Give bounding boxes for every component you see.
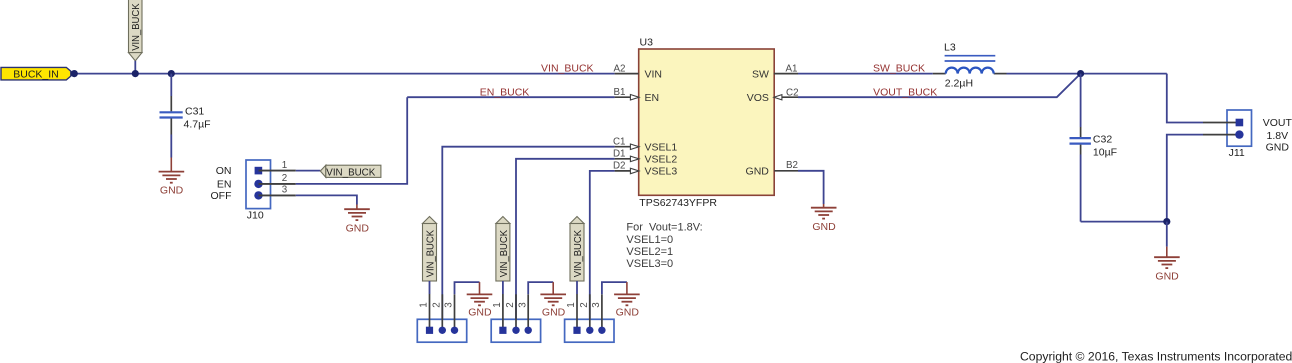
ground g3	[614, 282, 640, 305]
svg-text:GND: GND	[746, 165, 770, 177]
svg-text:B1: B1	[614, 87, 626, 98]
wire J11 pin2 to GND rail	[1167, 135, 1203, 222]
svg-text:VIN_BUCK: VIN_BUCK	[326, 167, 375, 179]
wire L3 to output node	[1007, 73, 1167, 75]
svg-text:VSEL2=1: VSEL2=1	[626, 246, 673, 258]
wire main VIN rail	[71, 73, 615, 75]
svg-text:L3: L3	[944, 42, 956, 54]
svg-text:VSEL1=0: VSEL1=0	[626, 234, 673, 246]
svg-text:SW_BUCK: SW_BUCK	[873, 63, 925, 75]
svg-text:Copyright © 2016, Texas Instru: Copyright © 2016, Texas Instruments Inco…	[1020, 350, 1292, 363]
net flag VIN_BUCK (top, vertical)	[129, 0, 143, 61]
ground g2	[540, 282, 566, 305]
svg-text:VSEL3: VSEL3	[645, 166, 678, 178]
connector J10	[246, 160, 271, 222]
svg-text:For Vout=1.8V:: For Vout=1.8V:	[626, 222, 702, 234]
capacitor C32	[1070, 74, 1118, 222]
svg-text:2: 2	[579, 302, 590, 307]
ground under C31	[159, 158, 185, 183]
svg-text:J11: J11	[1229, 147, 1245, 159]
connector box g3	[573, 327, 580, 334]
wire flag to pin1 g3	[576, 281, 578, 294]
svg-text:VIN_BUCK: VIN_BUCK	[130, 4, 142, 51]
svg-text:D2: D2	[613, 161, 626, 172]
svg-text:BUCK_IN: BUCK_IN	[13, 68, 59, 80]
svg-text:C31: C31	[185, 106, 204, 118]
junction C31 tap	[168, 70, 175, 77]
svg-text:C1: C1	[613, 136, 626, 147]
svg-text:2: 2	[432, 302, 443, 307]
svg-text:VSEL1: VSEL1	[645, 141, 678, 153]
svg-text:VIN_BUCK: VIN_BUCK	[424, 230, 436, 277]
net flag VIN_BUCK g3	[570, 217, 584, 224]
svg-text:2.2µH: 2.2µH	[945, 78, 973, 90]
svg-text:4.7µF: 4.7µF	[184, 119, 211, 131]
connector box g2	[499, 327, 506, 334]
wire pin2 riser g1	[441, 294, 443, 330]
svg-text:U3: U3	[640, 36, 654, 48]
wire U3 GND B2 to ground	[798, 171, 824, 204]
svg-text:EN: EN	[645, 92, 660, 104]
wire J10 pin3 to ground	[296, 195, 357, 204]
svg-text:2: 2	[282, 173, 287, 184]
ground at J10 pin3	[344, 205, 370, 221]
connector box g1	[426, 327, 433, 334]
svg-text:3: 3	[282, 185, 288, 196]
bottom connector group 3	[565, 217, 640, 343]
junction GND rail	[1163, 218, 1170, 225]
svg-text:GND: GND	[542, 306, 566, 318]
capacitor C31	[160, 74, 211, 158]
svg-text:VIN: VIN	[645, 68, 663, 80]
wire SW to L3	[798, 73, 933, 75]
svg-text:1: 1	[419, 302, 430, 307]
wire VOS VOUT_BUCK	[798, 74, 1081, 98]
svg-text:GND: GND	[160, 184, 184, 196]
IC U3 body	[639, 36, 775, 209]
svg-text:OFF: OFF	[211, 190, 232, 202]
junction output node	[1077, 70, 1084, 77]
svg-text:1.8V: 1.8V	[1266, 130, 1288, 142]
svg-text:GND: GND	[1266, 142, 1290, 154]
wire VSEL1	[442, 147, 614, 327]
svg-text:VIN_BUCK: VIN_BUCK	[541, 63, 594, 75]
svg-text:B2: B2	[786, 160, 798, 171]
svg-text:VIN_BUCK: VIN_BUCK	[498, 230, 510, 277]
svg-text:1: 1	[282, 160, 287, 171]
junction at BUCK_IN	[71, 70, 78, 77]
wire pin3 to ground g3	[601, 294, 603, 330]
svg-text:3: 3	[517, 302, 528, 308]
svg-text:GND: GND	[468, 306, 492, 318]
wire GND rail down	[1166, 222, 1168, 247]
wire J10 pin2 to EN riser	[296, 97, 407, 184]
svg-text:VSEL3=0: VSEL3=0	[626, 258, 673, 270]
svg-text:3: 3	[444, 302, 455, 308]
svg-text:3: 3	[591, 302, 602, 308]
svg-text:GND: GND	[346, 223, 370, 235]
note For Vout	[626, 222, 702, 271]
svg-text:TPS62743YFPR: TPS62743YFPR	[639, 197, 717, 209]
ground g1	[467, 282, 493, 305]
svg-text:VOUT_BUCK: VOUT_BUCK	[873, 86, 937, 98]
connector J11	[1203, 110, 1252, 159]
wire pin2 riser g2	[515, 294, 517, 330]
net flag VIN_BUCK g1	[423, 217, 437, 224]
svg-text:SW: SW	[752, 68, 769, 80]
wire output to J11 pin1	[1167, 74, 1203, 123]
U3 input pin arrows	[630, 95, 782, 174]
wire flag stem	[134, 61, 136, 74]
svg-text:GND: GND	[812, 221, 836, 233]
svg-text:J10: J10	[247, 210, 264, 222]
bottom connector group 1	[417, 217, 492, 343]
bottom connector group 2	[491, 217, 566, 343]
wire C32 bottom to GND rail	[1081, 221, 1167, 223]
wire J10 pin1 to flag	[296, 170, 321, 172]
power port BUCK_IN	[1, 67, 71, 80]
svg-text:D1: D1	[613, 148, 626, 159]
wire EN_BUCK	[407, 96, 614, 98]
wire pin3 to ground g1	[454, 294, 456, 330]
svg-text:A2: A2	[614, 63, 626, 74]
svg-text:VOS: VOS	[747, 92, 769, 104]
wire VSEL2	[516, 159, 615, 327]
wire flag to pin1 g1	[429, 281, 431, 294]
svg-text:1: 1	[492, 302, 503, 307]
svg-text:1: 1	[566, 302, 577, 307]
svg-text:10µF: 10µF	[1093, 146, 1117, 158]
svg-text:GND: GND	[1155, 270, 1179, 282]
svg-text:VOUT: VOUT	[1263, 117, 1292, 129]
ground at U3 B2	[811, 204, 837, 219]
U3 pin stubs left	[615, 74, 798, 171]
net flag VIN_BUCK at J10	[320, 165, 381, 178]
net flag VIN_BUCK g2	[496, 217, 510, 224]
svg-text:GND: GND	[616, 306, 640, 318]
wire VSEL3	[590, 171, 615, 327]
J10 pin stubs	[259, 171, 296, 196]
svg-text:VSEL2: VSEL2	[645, 154, 678, 166]
svg-text:C32: C32	[1093, 134, 1112, 146]
svg-text:A1: A1	[786, 63, 798, 74]
U3 pin designators	[613, 63, 799, 171]
inductor L3	[933, 42, 1007, 90]
svg-text:VIN_BUCK: VIN_BUCK	[572, 230, 584, 277]
svg-text:EN_BUCK: EN_BUCK	[480, 87, 530, 99]
wire pin3 to ground g2	[527, 294, 529, 330]
junction VIN_BUCK flag	[132, 70, 139, 77]
svg-text:ON: ON	[216, 165, 232, 177]
wire flag to pin1 g2	[502, 281, 504, 294]
J11 net labels VOUT 1.8V GND	[1263, 117, 1292, 153]
wire pin2 riser g3	[589, 294, 591, 330]
ground at output	[1154, 247, 1180, 269]
svg-text:2: 2	[505, 302, 516, 307]
U3 pin names	[645, 68, 770, 177]
svg-text:EN: EN	[217, 178, 232, 190]
